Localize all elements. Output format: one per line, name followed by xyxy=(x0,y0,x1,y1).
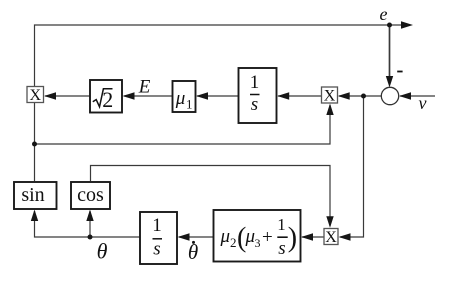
svg-text:X: X xyxy=(325,229,337,246)
svg-text:s: s xyxy=(278,238,285,259)
svg-text:1: 1 xyxy=(277,215,286,234)
svg-text:sin: sin xyxy=(21,184,44,206)
svg-text:1: 1 xyxy=(250,72,260,93)
svg-text:3: 3 xyxy=(255,236,261,250)
svg-text:X: X xyxy=(30,87,42,104)
svg-text:1: 1 xyxy=(152,215,162,236)
svg-text:μ: μ xyxy=(220,226,231,247)
svg-text:s: s xyxy=(251,94,258,115)
svg-text:2: 2 xyxy=(230,235,237,250)
svg-text:s: s xyxy=(153,239,160,260)
svg-text:): ) xyxy=(288,223,297,254)
svg-text:μ: μ xyxy=(175,88,186,109)
svg-text:μ: μ xyxy=(245,226,256,247)
svg-text:e: e xyxy=(380,4,388,24)
svg-text:1: 1 xyxy=(186,97,193,112)
svg-text:E: E xyxy=(138,77,151,98)
svg-text:θ: θ xyxy=(97,239,108,264)
svg-text:cos: cos xyxy=(77,184,104,206)
svg-text:X: X xyxy=(324,88,336,105)
svg-text:+: + xyxy=(262,227,273,248)
svg-text:v: v xyxy=(419,93,427,113)
svg-text:2: 2 xyxy=(102,87,113,112)
